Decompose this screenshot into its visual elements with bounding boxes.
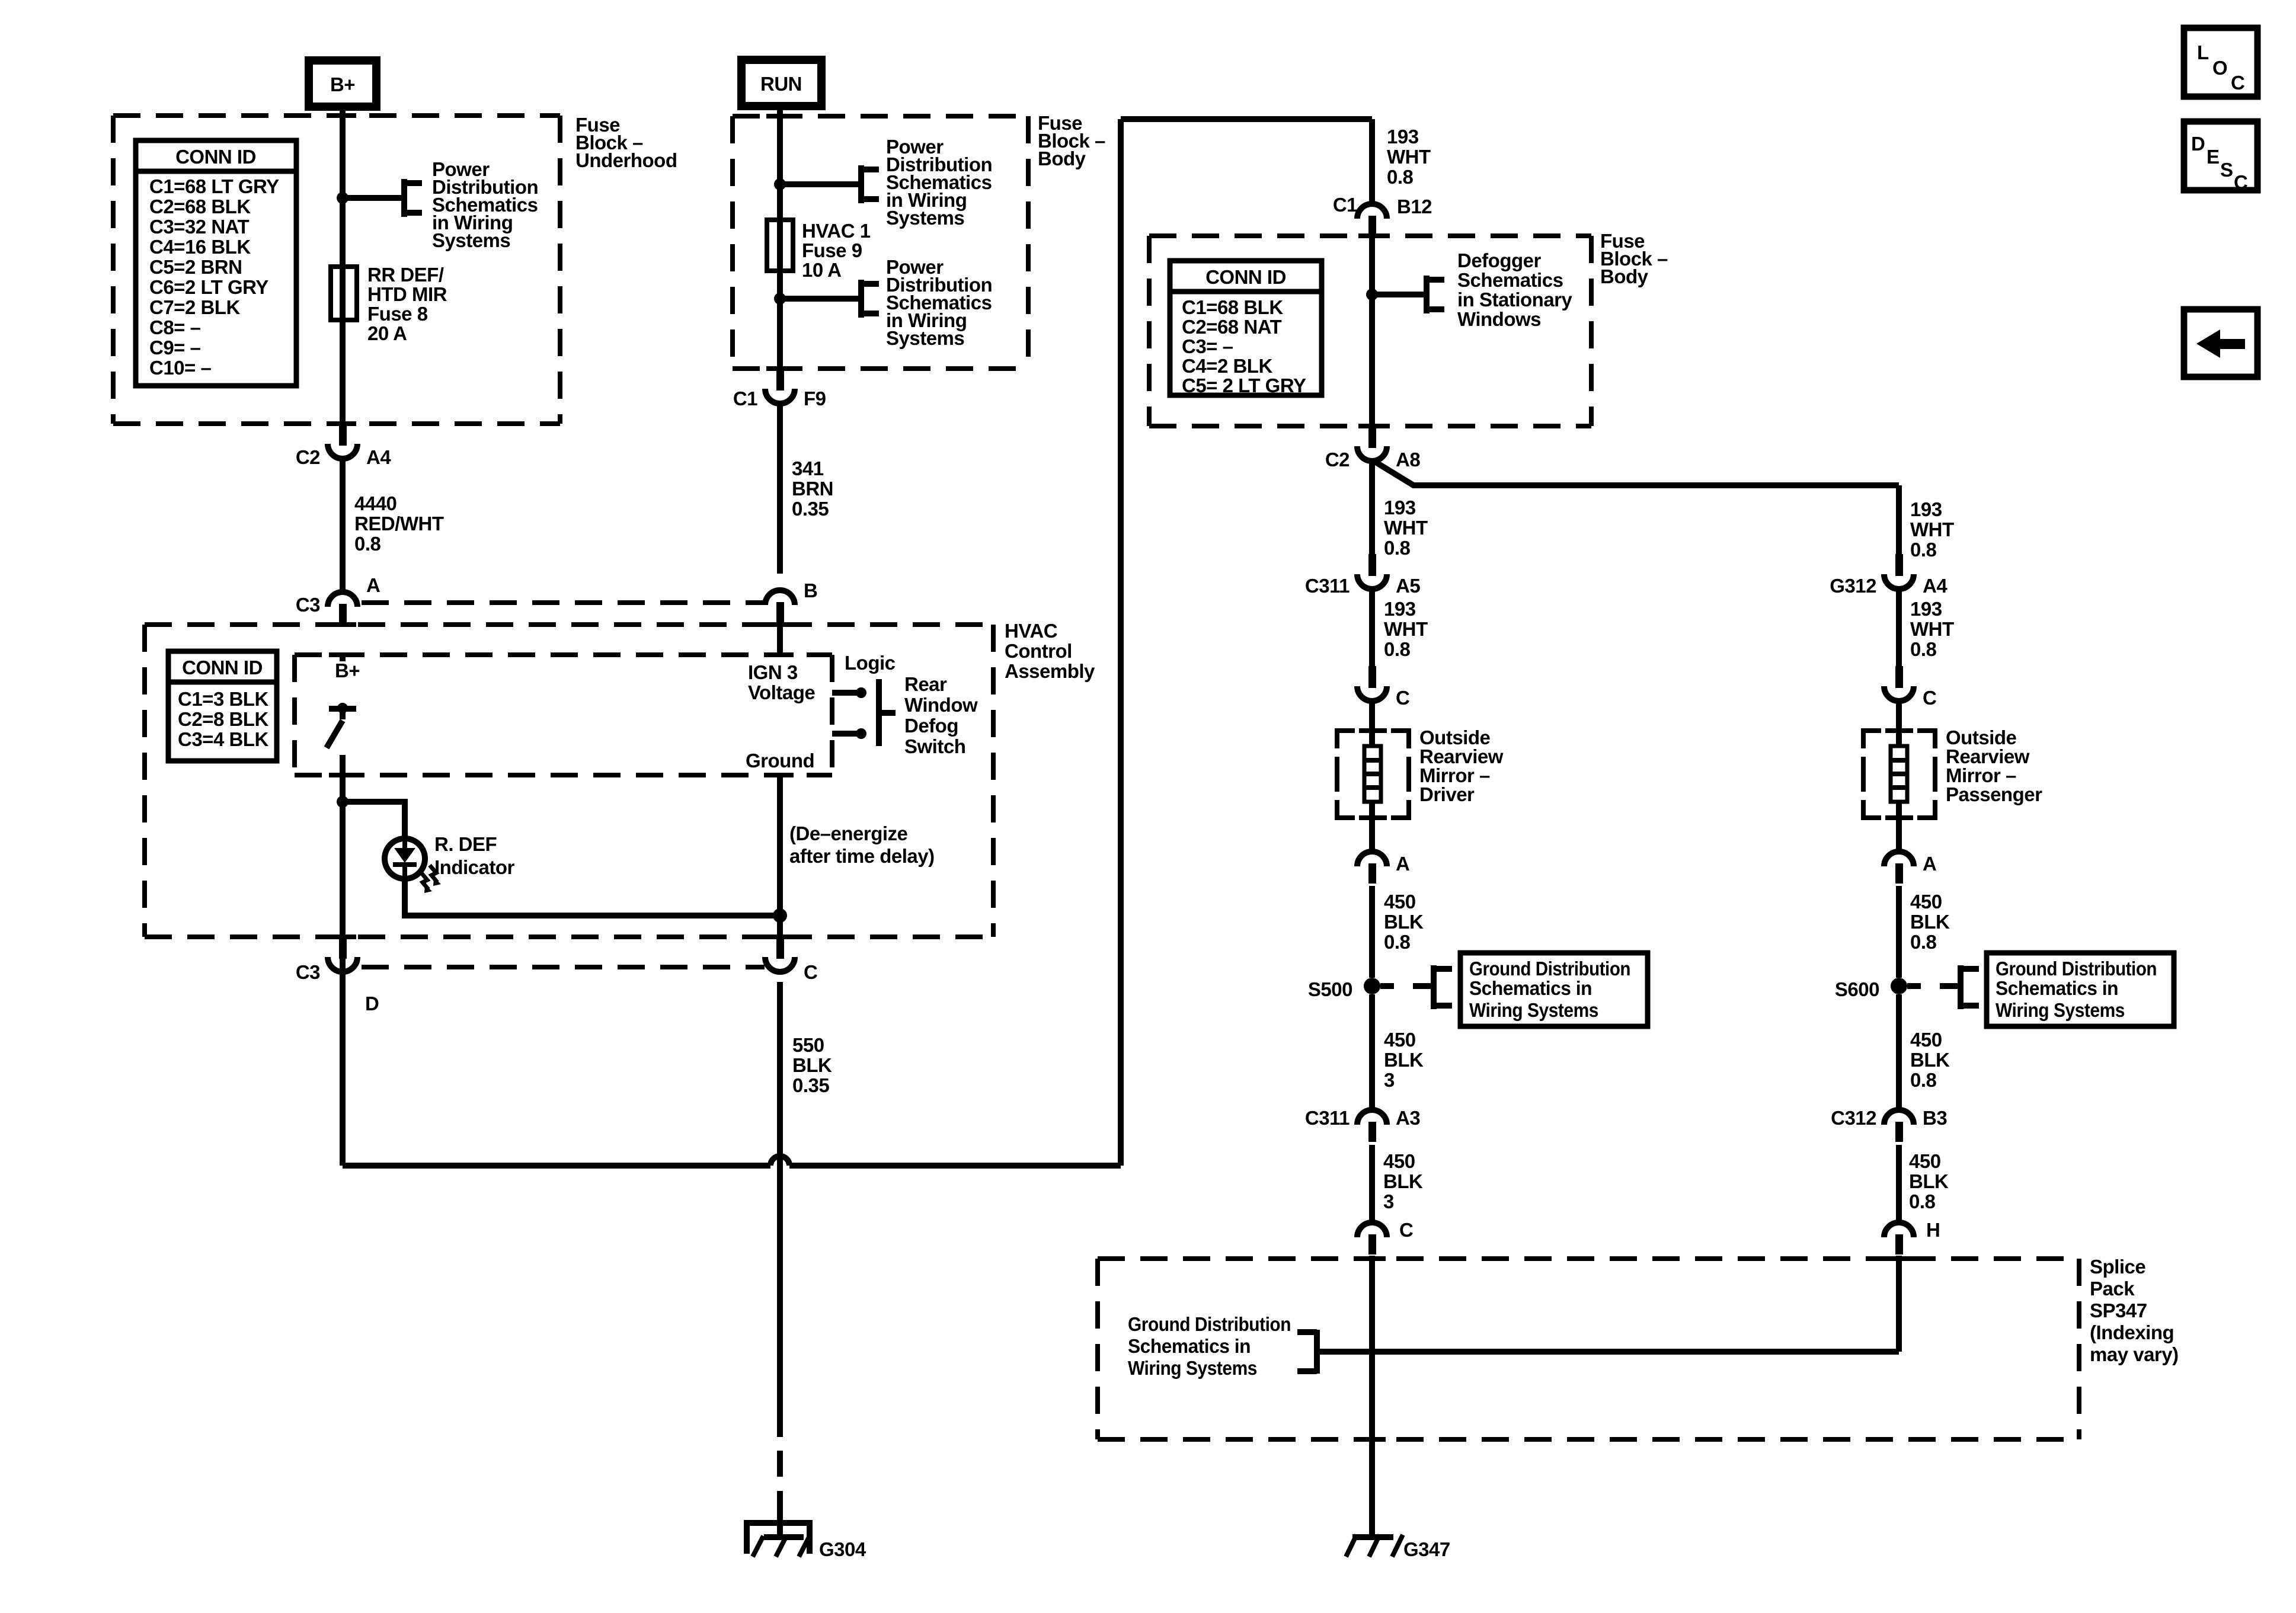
wire passenger drop (1896, 485, 1902, 554)
dash at ground pin (766, 773, 794, 777)
connector C1 pin F9 (733, 369, 826, 409)
svg-text:B+: B+ (330, 73, 355, 95)
svg-text:450: 450 (1384, 891, 1416, 913)
svg-text:C1=3 BLK: C1=3 BLK (178, 688, 268, 710)
heater element passenger mirror (1891, 746, 1907, 802)
svg-text:450: 450 (1383, 1150, 1415, 1172)
svg-text:BLK: BLK (1384, 911, 1424, 933)
ground G347 (1346, 1535, 1403, 1557)
svg-text:Rear: Rear (904, 673, 947, 695)
svg-text:C1: C1 (1333, 194, 1357, 216)
label wire 341 BRN 0.35 (792, 457, 833, 520)
dash at wire crossing box bottom (329, 421, 356, 426)
wire junction to bracket (343, 195, 404, 201)
svg-text:C6=2 LT GRY: C6=2 LT GRY (149, 276, 268, 298)
dash at B+ pin (329, 652, 356, 657)
svg-text:C5=2 BRN: C5=2 BRN (149, 256, 242, 278)
svg-text:A8: A8 (1396, 449, 1420, 471)
wire RUN to fuse block body (777, 106, 783, 369)
svg-text:HVAC: HVAC (1005, 620, 1057, 642)
wire H into splice pack (1896, 1256, 1902, 1352)
heater element driver mirror (1364, 746, 1381, 802)
svg-text:0.35: 0.35 (792, 498, 829, 520)
off-page bracket defogger schematics (1427, 276, 1444, 313)
icon box back arrow (2184, 309, 2257, 377)
svg-text:BLK: BLK (1383, 1170, 1423, 1192)
wire mirror to A passenger (1896, 802, 1902, 850)
label Power Distribution Schematics (underhood) (432, 158, 538, 251)
svg-text:D: D (2191, 133, 2205, 155)
wire 550 BLK down (777, 982, 783, 1437)
label wire 193 WHT 0.8 (driver) (1384, 497, 1428, 559)
label Power Distribution Schematics (body upper) (886, 136, 992, 229)
wire S600 to C312 B3 (1896, 994, 1902, 1108)
svg-text:RUN: RUN (760, 73, 802, 95)
svg-text:F9: F9 (804, 388, 826, 409)
label Fuse 9 (802, 220, 871, 281)
fuse HVAC 1 Fuse 9 10 A (767, 220, 793, 271)
switch rear defog (in HVAC) (327, 703, 356, 748)
svg-text:BLK: BLK (792, 1054, 832, 1076)
dash at H stub splice (1885, 1256, 1913, 1261)
connector C3 pin A (296, 592, 357, 624)
svg-text:0.8: 0.8 (1910, 1069, 1937, 1091)
svg-text:may vary): may vary) (2090, 1343, 2179, 1365)
svg-text:D: D (365, 993, 379, 1014)
svg-text:A3: A3 (1396, 1107, 1420, 1129)
svg-text:C2: C2 (1325, 449, 1350, 471)
svg-text:B+: B+ (335, 660, 360, 681)
svg-text:Pack: Pack (2090, 1278, 2135, 1300)
svg-text:0.8: 0.8 (1910, 539, 1937, 561)
wire S500 to bracket (1380, 983, 1394, 989)
svg-text:193: 193 (1910, 598, 1942, 620)
wire junction to bracket (run upper) (780, 181, 861, 187)
callout box ground distribution S600 (1987, 953, 2174, 1026)
svg-text:BLK: BLK (1910, 1049, 1950, 1071)
svg-text:0.8: 0.8 (1384, 931, 1411, 953)
connector A (passenger mirror) (1884, 852, 1914, 884)
wire down to C1 B12 (1369, 119, 1375, 202)
svg-text:450: 450 (1909, 1150, 1941, 1172)
svg-text:S: S (2220, 159, 2233, 181)
label Ground Distribution SP347 (1128, 1313, 1291, 1379)
svg-text:after time delay): after time delay) (789, 845, 935, 867)
svg-text:E: E (2207, 146, 2220, 168)
connector C1 pin B12 (1357, 204, 1387, 236)
off-page bracket power distribution body upper (861, 165, 879, 203)
svg-text:Ground Distribution: Ground Distribution (1996, 958, 2157, 980)
svg-text:Switch: Switch (904, 735, 965, 757)
wire S500 to C311 A3 (1369, 994, 1375, 1108)
svg-text:Body: Body (1600, 265, 1649, 287)
wire B12 to A8 (1369, 236, 1375, 426)
svg-text:C2=68 NAT: C2=68 NAT (1182, 316, 1282, 338)
svg-text:C2=68 BLK: C2=68 BLK (149, 196, 251, 217)
HVAC control assembly box (145, 625, 993, 937)
label wire 193 WHT 0.8 (driver 2) (1384, 598, 1428, 660)
wire A5 to C (1369, 589, 1375, 666)
dash at IGN3 pin (766, 652, 794, 657)
svg-text:3: 3 (1383, 1190, 1394, 1212)
junction node defogger feed (1366, 289, 1378, 300)
label Outside Rearview Mirror Passenger (1946, 727, 2042, 805)
svg-text:0.8: 0.8 (1387, 166, 1414, 188)
wire LED to ground node (405, 879, 780, 916)
svg-text:Schematics: Schematics (1457, 269, 1563, 291)
svg-text:Assembly: Assembly (1005, 660, 1095, 682)
svg-text:193: 193 (1384, 598, 1416, 620)
svg-text:WHT: WHT (1384, 618, 1428, 640)
svg-text:Splice: Splice (2090, 1256, 2145, 1278)
svg-text:Systems: Systems (432, 229, 510, 251)
label Power Distribution Schematics (body lower) (886, 256, 992, 349)
wire A to S500 (1369, 886, 1375, 978)
svg-text:B3: B3 (1923, 1107, 1947, 1129)
ground G304 (747, 1523, 810, 1557)
svg-text:Schematics in: Schematics in (1469, 977, 1592, 999)
dash at B stub crossing (766, 622, 794, 627)
svg-text:C4=16 BLK: C4=16 BLK (149, 236, 251, 258)
label wire 450 BLK 0.8 (passenger) (1910, 891, 1950, 953)
svg-text:Fuse 9: Fuse 9 (802, 239, 862, 261)
svg-text:C: C (2231, 72, 2244, 94)
dash at B12 stub (1358, 233, 1386, 238)
wire ground pin down (777, 775, 783, 937)
bracket rear window defog switch (879, 679, 896, 746)
svg-text:Systems: Systems (886, 327, 964, 349)
svg-text:20 A: 20 A (367, 322, 407, 344)
splice S500 (1364, 978, 1380, 994)
svg-text:0.8: 0.8 (1384, 638, 1411, 660)
callout box ground distribution S500 (1460, 953, 1648, 1026)
wire mirror to A (1369, 802, 1375, 850)
svg-text:CONN ID: CONN ID (175, 146, 256, 168)
svg-text:193: 193 (1910, 498, 1942, 520)
svg-text:0.35: 0.35 (792, 1074, 829, 1096)
svg-text:C3: C3 (296, 961, 320, 983)
wire S600 to bracket (1907, 983, 1921, 989)
svg-text:4440: 4440 (354, 492, 396, 514)
svg-text:G304: G304 (819, 1538, 866, 1560)
svg-text:Body: Body (1038, 148, 1086, 169)
svg-text:S600: S600 (1835, 978, 1879, 1000)
svg-text:WHT: WHT (1387, 146, 1431, 168)
svg-text:0.8: 0.8 (1909, 1190, 1936, 1212)
svg-text:10 A: 10 A (802, 259, 841, 281)
svg-text:Defog: Defog (904, 715, 958, 737)
label wire 450 BLK 3 (upper) (1384, 1029, 1424, 1091)
svg-text:C: C (1396, 687, 1409, 709)
svg-text:193: 193 (1384, 497, 1416, 519)
dash at C3D stub crossing (329, 934, 356, 939)
svg-text:Logic: Logic (845, 652, 896, 674)
svg-text:RED/WHT: RED/WHT (354, 513, 444, 535)
power symbol B+ box (309, 60, 376, 107)
connector C3 pin D (296, 937, 357, 983)
wire switch to B+ out pin (340, 755, 346, 802)
svg-text:Wiring Systems: Wiring Systems (1469, 999, 1598, 1021)
svg-text:HVAC 1: HVAC 1 (802, 220, 871, 242)
wire junction to bracket (run lower) (780, 296, 861, 302)
connector C (splice pack) (1357, 1222, 1387, 1254)
LED light arrows (421, 865, 441, 893)
svg-text:C3= –: C3= – (1182, 335, 1233, 357)
svg-text:C: C (2234, 171, 2247, 193)
svg-text:Ground Distribution: Ground Distribution (1128, 1313, 1291, 1335)
svg-text:Indicator: Indicator (434, 856, 515, 878)
svg-text:C3: C3 (296, 594, 320, 616)
wire into splice pack (1369, 1256, 1375, 1537)
svg-text:C1: C1 (733, 388, 757, 409)
svg-text:BLK: BLK (1910, 911, 1950, 933)
wire B stub to inner box (777, 623, 783, 655)
junction node on B+ feed (337, 192, 348, 204)
label wire 450 BLK 0.8 (driver) (1384, 891, 1424, 953)
svg-text:A5: A5 (1396, 575, 1420, 597)
svg-text:C3=4 BLK: C3=4 BLK (178, 728, 268, 750)
wire B3 to H (1896, 1145, 1902, 1221)
wire A to S600 (1896, 886, 1902, 978)
svg-text:Control: Control (1005, 640, 1072, 662)
label R. DEF Indicator (434, 833, 515, 878)
svg-text:C: C (804, 961, 817, 983)
svg-text:Systems: Systems (886, 207, 964, 229)
connector G312 pin A4 (1830, 554, 1948, 597)
fuse block body box (733, 116, 1028, 369)
junction node B+ out (337, 796, 348, 808)
svg-text:C: C (1923, 687, 1936, 709)
wire top horizontal (1121, 116, 1372, 122)
wire diagonal from A8 (1374, 461, 1899, 485)
svg-text:550: 550 (792, 1034, 824, 1056)
wire junction to defogger bracket (1372, 292, 1427, 297)
connector B (HVAC IGN3) (765, 590, 795, 622)
svg-text:C2=8 BLK: C2=8 BLK (178, 708, 268, 730)
outside rearview mirror driver box (1337, 731, 1409, 818)
svg-text:WHT: WHT (1910, 519, 1954, 540)
dash at RUN wire crossing (766, 114, 794, 119)
svg-text:450: 450 (1910, 1029, 1942, 1051)
svg-text:Voltage: Voltage (748, 681, 815, 703)
svg-text:L: L (2197, 41, 2209, 63)
svg-text:Windows: Windows (1457, 308, 1541, 330)
connector C (passenger mirror) (1884, 666, 1936, 709)
svg-text:A4: A4 (1923, 575, 1948, 597)
svg-text:O: O (2212, 57, 2227, 79)
label wire 450 BLK 0.8 (passenger lower) (1910, 1029, 1950, 1091)
bracket ground distribution SP347 (1297, 1330, 1317, 1374)
off-page bracket power distribution body lower (861, 280, 879, 318)
svg-text:Schematics in: Schematics in (1128, 1335, 1251, 1357)
connector C2 pin A8 (1325, 426, 1421, 471)
wire C to mirror (1369, 701, 1375, 746)
wire 4440 RED/WHT (340, 459, 346, 590)
svg-text:0.8: 0.8 (354, 533, 381, 555)
svg-text:in Stationary: in Stationary (1457, 289, 1573, 311)
splice S600 (1891, 978, 1907, 994)
dash at C3A stub crossing (329, 622, 356, 627)
label Outside Rearview Mirror Driver (1419, 727, 1504, 805)
connector H (splice pack) (1884, 1222, 1914, 1254)
label wire 550 BLK 0.35 (792, 1034, 832, 1096)
fuse RR DEF/HTD MIR Fuse 8 20 A (331, 267, 357, 320)
dash at A8 stub (1358, 424, 1386, 428)
svg-text:Defogger: Defogger (1457, 249, 1542, 271)
off-page bracket ground distribution S600 (1961, 965, 1979, 1009)
power symbol RUN box (741, 60, 821, 106)
svg-text:A: A (1923, 853, 1936, 875)
wire C to mirror passenger (1896, 701, 1902, 746)
label wire 193 WHT 0.8 (top) (1387, 126, 1431, 188)
connector A (driver mirror) (1357, 852, 1387, 884)
icon box DESC (2184, 121, 2257, 193)
svg-text:(De–energize: (De–energize (789, 822, 908, 844)
svg-text:Schematics in: Schematics in (1996, 977, 2118, 999)
svg-text:341: 341 (792, 457, 824, 479)
fuse block body 2 box (1149, 236, 1591, 426)
svg-text:S500: S500 (1308, 978, 1352, 1000)
connector C2 pin A4 (296, 424, 392, 468)
label wire 193 WHT 0.8 (passenger 2) (1910, 598, 1954, 660)
svg-text:C9= –: C9= – (149, 337, 201, 359)
label De-energize (789, 822, 935, 867)
HVAC switch component box (295, 655, 832, 775)
wire B+ pin stub (340, 655, 346, 661)
label Fuse Block Body 2 (1600, 230, 1668, 287)
svg-text:C10= –: C10= – (149, 357, 211, 379)
svg-text:0.8: 0.8 (1384, 537, 1411, 559)
off-page bracket power distribution underhood (404, 179, 422, 217)
dash at C1F9 crossing (766, 366, 794, 371)
dash at B+ out pin (329, 773, 356, 777)
connector C312 pin B3 (1831, 1107, 1947, 1142)
svg-text:C5= 2 LT GRY: C5= 2 LT GRY (1182, 375, 1306, 396)
svg-text:B: B (804, 580, 817, 601)
dotted wire C3D to C (362, 965, 765, 969)
svg-text:H: H (1926, 1219, 1940, 1241)
connector C (HVAC ground out) (765, 937, 817, 983)
label Fuse 8 (367, 264, 447, 344)
label Fuse Block Underhood (575, 114, 677, 171)
dash at C stub crossing (766, 934, 794, 939)
LED R. DEF indicator (385, 838, 425, 879)
svg-text:3: 3 (1384, 1069, 1395, 1091)
label wire 4440 RED/WHT 0.8 (354, 492, 444, 555)
logic pin lines with dots (832, 687, 866, 739)
dotted wire C3A to B (362, 600, 765, 605)
svg-text:C4=2 BLK: C4=2 BLK (1182, 355, 1272, 377)
svg-text:A4: A4 (366, 446, 391, 468)
wire 341 BRN (777, 404, 783, 574)
wire A3 to C splice (1369, 1145, 1375, 1221)
svg-text:SP347: SP347 (2090, 1300, 2147, 1321)
svg-text:C1=68 BLK: C1=68 BLK (1182, 296, 1283, 318)
svg-text:B12: B12 (1397, 196, 1432, 217)
wire driver drop (1369, 462, 1375, 554)
svg-text:Wiring Systems: Wiring Systems (1128, 1357, 1257, 1379)
wire C3D down (340, 982, 346, 1166)
svg-text:C311: C311 (1305, 575, 1350, 597)
svg-text:BRN: BRN (792, 478, 833, 500)
wire dashed section above G304 (777, 1451, 783, 1477)
label wire 193 WHT 0.8 (passenger top) (1910, 498, 1954, 561)
svg-text:Ground: Ground (746, 750, 814, 772)
wire B+ to fuse block underhood (340, 107, 346, 424)
svg-text:R. DEF: R. DEF (434, 833, 497, 855)
wire A4 to C passenger (1896, 589, 1902, 666)
label Defogger Schematics (1457, 249, 1573, 330)
svg-text:BLK: BLK (1909, 1170, 1949, 1192)
svg-text:450: 450 (1384, 1029, 1416, 1051)
svg-text:CONN ID: CONN ID (1205, 266, 1286, 288)
dash at B+ wire crossing box top (329, 113, 356, 118)
svg-text:C311: C311 (1305, 1107, 1350, 1129)
wire splice horizontal (1317, 1349, 1899, 1355)
junction node below fuse 9 (774, 293, 786, 305)
svg-text:C1=68 LT GRY: C1=68 LT GRY (149, 175, 279, 197)
svg-text:(Indexing: (Indexing (2090, 1321, 2174, 1343)
svg-text:C: C (1399, 1219, 1413, 1241)
CONN ID table (fuse block underhood) (136, 140, 296, 386)
svg-text:450: 450 (1910, 891, 1942, 913)
label Fuse Block Body (1038, 112, 1105, 169)
svg-text:HTD MIR: HTD MIR (367, 283, 447, 305)
connector C311 pin A5 (1305, 554, 1420, 597)
svg-text:Wiring Systems: Wiring Systems (1996, 999, 2125, 1021)
wire B+ out down (340, 802, 346, 1166)
label Rear Window Defog Switch (904, 673, 978, 757)
wire hop over ground wire (770, 1156, 789, 1166)
svg-text:C7=2 BLK: C7=2 BLK (149, 296, 240, 318)
svg-text:WHT: WHT (1384, 517, 1428, 539)
off-page bracket ground distribution S500 (1434, 965, 1452, 1009)
svg-text:IGN 3: IGN 3 (748, 661, 798, 683)
svg-text:A: A (1396, 853, 1409, 875)
splice pack SP347 box (1098, 1259, 2079, 1439)
svg-text:C312: C312 (1831, 1107, 1876, 1129)
label wire 450 BLK 3 (lower) (1383, 1150, 1423, 1212)
wire junction to LED branch (343, 802, 405, 838)
label Splice Pack SP347 (2090, 1256, 2179, 1365)
svg-text:G312: G312 (1830, 575, 1876, 597)
CONN ID table (fuse block body) (1170, 261, 1322, 396)
svg-text:Ground Distribution: Ground Distribution (1469, 958, 1630, 980)
svg-text:C8= –: C8= – (149, 316, 201, 338)
wire long vertical up (1118, 119, 1124, 1166)
wire bottom horizontal left (343, 1163, 770, 1169)
junction node RUN feed (774, 178, 786, 190)
svg-text:0.8: 0.8 (1910, 638, 1937, 660)
wire to G304 (777, 1491, 783, 1537)
label wire 450 BLK 0.8 (passenger bottom) (1909, 1150, 1949, 1212)
svg-text:Passenger: Passenger (1946, 783, 2042, 805)
svg-text:Window: Window (904, 694, 978, 716)
svg-text:A: A (366, 574, 380, 596)
CONN ID table (HVAC control assembly) (168, 651, 277, 761)
svg-text:G347: G347 (1403, 1538, 1450, 1560)
svg-text:0.8: 0.8 (1910, 931, 1937, 953)
label HVAC Control Assembly (1005, 620, 1095, 682)
svg-text:C3=32 NAT: C3=32 NAT (149, 216, 250, 238)
junction node ground pin (773, 908, 787, 923)
svg-text:Fuse 8: Fuse 8 (367, 303, 428, 325)
svg-text:CONN ID: CONN ID (182, 657, 263, 679)
svg-text:Driver: Driver (1419, 783, 1475, 805)
svg-text:C2: C2 (296, 446, 320, 468)
fuse block underhood box (113, 116, 560, 424)
wire bottom horizontal right (789, 1163, 1121, 1169)
